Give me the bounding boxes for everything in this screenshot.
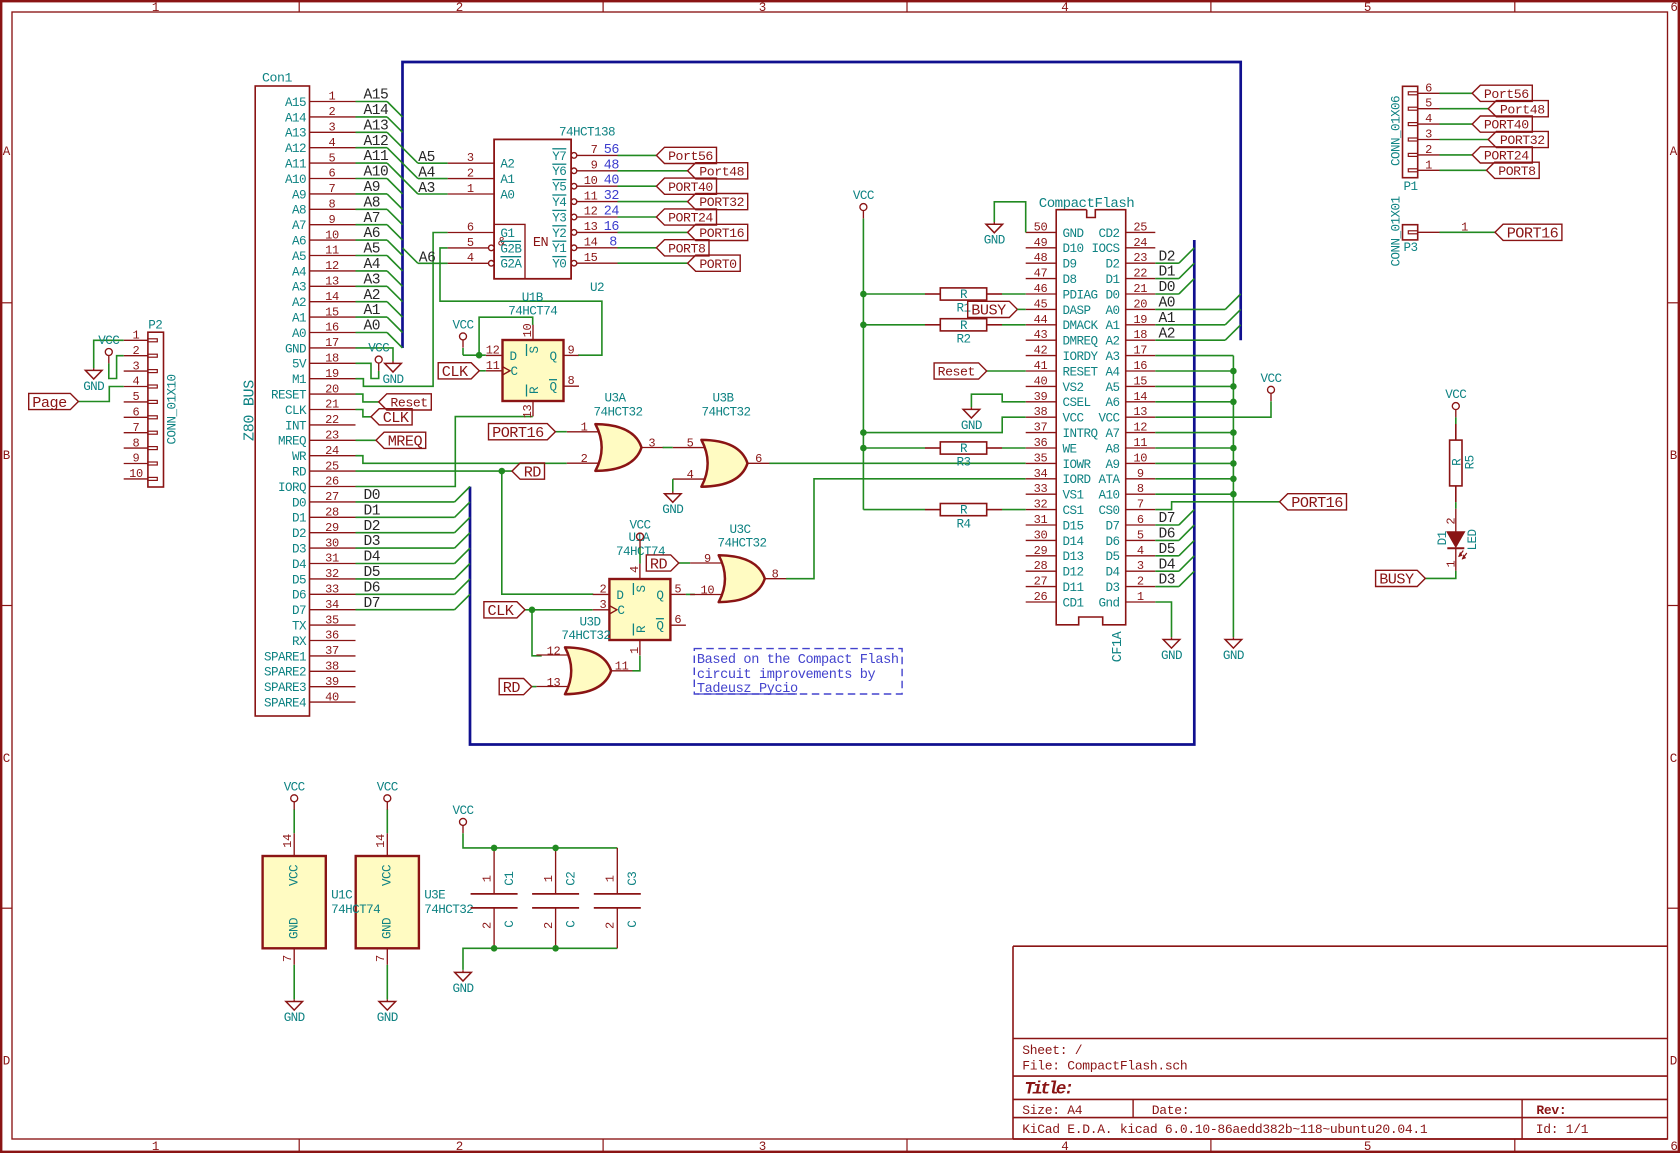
svg-text:D6: D6 [364,580,381,596]
svg-text:U3E: U3E [424,888,445,902]
svg-text:A1: A1 [1106,319,1120,333]
VCC symbol at capacitor rail [453,804,475,833]
svg-text:28: 28 [1034,559,1048,573]
svg-text:17: 17 [325,336,339,350]
svg-text:D1: D1 [1106,273,1120,287]
svg-text:1: 1 [467,182,474,196]
svg-text:8: 8 [329,198,336,212]
svg-text:MREQ: MREQ [278,435,306,449]
svg-text:PORT8: PORT8 [668,241,706,256]
svg-text:A4: A4 [1106,365,1120,379]
resistor R4 [925,504,1002,516]
svg-text:D6: D6 [1106,535,1120,549]
svg-text:12: 12 [1133,421,1147,435]
svg-text:A3: A3 [418,181,435,197]
global label PORT8 (P1) [1487,162,1540,179]
svg-text:4: 4 [687,468,694,482]
connector P2 body [148,332,164,487]
svg-text:5V: 5V [292,358,307,372]
svg-text:40: 40 [604,174,620,189]
U3C pin numbers [700,552,778,597]
svg-text:VCC: VCC [1063,412,1085,426]
svg-text:2: 2 [1425,143,1432,157]
wire CF pin 50 GND [994,202,1025,233]
svg-text:TX: TX [292,620,307,634]
svg-text:31: 31 [325,552,339,566]
global label PORT16 (P3) [1495,224,1562,242]
svg-text:4: 4 [1137,544,1144,558]
wires D7-D3 to data bus [1155,510,1194,587]
svg-text:14: 14 [1133,390,1147,404]
svg-text:RX: RX [292,635,307,649]
svg-text:2: 2 [581,452,588,466]
or-gate U3A 74HCT32 [567,424,664,471]
svg-text:GND: GND [453,982,474,996]
svg-text:11: 11 [325,244,339,258]
svg-text:D: D [510,350,517,364]
Con1 pins 1-40 stubs and numbers [264,90,356,711]
svg-text:Q: Q [550,350,557,364]
svg-text:INT: INT [285,419,307,433]
svg-text:11: 11 [584,189,598,203]
svg-text:PORT24: PORT24 [1484,149,1529,164]
svg-text:D5: D5 [364,565,381,581]
svg-text:5: 5 [1364,1140,1371,1153]
svg-text:C: C [3,752,10,766]
svg-text:1: 1 [1445,561,1459,568]
global label PORT16 (U2 output) [688,224,748,241]
svg-text:C2: C2 [565,872,579,886]
wire RD label to U3D input 13 [532,686,537,688]
local labels D0-D7 [364,488,381,612]
svg-text:17: 17 [1133,344,1147,358]
power unit U3E 74HCT32 [356,833,419,965]
svg-text:GND: GND [961,419,982,433]
svg-text:A1: A1 [292,312,306,326]
svg-text:48: 48 [604,158,620,173]
VCC rail left of CompactFlash [862,219,864,510]
flip-flop U1B 74HCT74 [486,325,579,417]
svg-text:74HCT74: 74HCT74 [331,903,380,917]
svg-text:31: 31 [1034,513,1048,527]
global label PORT24 (P1) [1472,147,1532,164]
power unit U1C 74HCT74 [263,833,326,965]
global label RD (U3C) [646,555,679,573]
svg-text:9: 9 [591,159,598,173]
svg-text:D0: D0 [1106,288,1120,302]
flip-flop pin numbers [486,324,575,419]
svg-text:D4: D4 [1159,557,1176,573]
bus entry and wire A6 to U2 G2A [403,248,448,263]
ground at CF pin 50 [984,222,1005,248]
connector CF1A body [1056,210,1126,625]
ground at CF CSEL [961,407,982,433]
svg-text:32: 32 [325,567,339,581]
wire U1A Q to U3C input 10 [686,593,695,595]
global label CLK (U1A) [484,602,525,620]
svg-text:GND: GND [288,918,302,939]
svg-text:R: R [960,319,968,333]
svg-text:PORT8: PORT8 [1498,164,1536,179]
svg-text:18: 18 [1133,328,1147,342]
U3B pin numbers [687,436,763,481]
svg-text:A7: A7 [364,211,381,227]
svg-text:B: B [1670,449,1678,463]
svg-text:25: 25 [325,459,339,473]
wire P1 pin 2 to PORT24 [1440,154,1473,156]
svg-text:D0: D0 [364,488,381,504]
svg-text:D12: D12 [1063,566,1084,580]
svg-text:IORDY: IORDY [1063,350,1099,364]
wire P2 pin1 to GND [94,340,124,368]
svg-text:6: 6 [674,613,681,627]
svg-text:1: 1 [133,329,140,343]
wire P1 pin 1 to PORT8 [1440,169,1487,171]
VCC symbol at P2 pin 2 [98,334,120,363]
svg-text:D1: D1 [1159,265,1176,281]
frame row labels right [1670,145,1678,1068]
svg-text:Y5: Y5 [552,181,566,195]
svg-text:25: 25 [1133,220,1147,234]
wire MREQ to MREQ label [356,439,377,441]
svg-text:11: 11 [615,660,629,674]
svg-text:43: 43 [1034,328,1048,342]
wire U2 Y2 to PORT16 [618,231,688,233]
svg-text:5: 5 [329,151,336,165]
svg-text:26: 26 [1034,590,1048,604]
svg-text:D: D [616,589,623,603]
svg-text:35: 35 [1034,451,1048,465]
svg-text:3: 3 [467,151,474,165]
svg-text:7: 7 [374,955,388,962]
svg-text:A2: A2 [364,288,381,304]
svg-text:U3D: U3D [580,615,601,629]
svg-text:VCC: VCC [453,804,475,818]
svg-text:D3: D3 [364,534,381,550]
svg-text:1: 1 [480,875,494,882]
svg-text:CSEL: CSEL [1063,396,1091,410]
svg-text:13: 13 [521,405,535,419]
svg-text:D15: D15 [1063,519,1084,533]
or-gate U3B 74HCT32 [673,440,770,487]
svg-text:VS1: VS1 [1063,489,1084,503]
svg-text:R: R [960,504,968,518]
or-gate U3C 74HCT32 [690,555,787,602]
wire U2 Y7 to Port56 [618,154,657,156]
svg-text:D6: D6 [292,589,306,603]
svg-text:19: 19 [1133,313,1147,327]
svg-text:A: A [3,145,11,159]
svg-text:36: 36 [325,629,339,643]
wire CF pin 39 CSEL to GND [971,394,1025,407]
svg-text:A3: A3 [364,272,381,288]
VCC symbol at U1B D [453,319,475,348]
global label CLK (U1B) [438,363,479,381]
global label PORT24 (U2 output) [656,209,716,226]
svg-text:U3C: U3C [730,523,752,537]
svg-text:16: 16 [325,321,339,335]
svg-text:R5: R5 [1464,455,1478,469]
title block frame [1013,946,1668,1139]
svg-text:7: 7 [591,143,598,157]
capacitor C2 [532,848,579,948]
svg-text:18: 18 [325,352,339,366]
ground at capacitor rail [453,970,474,996]
svg-text:WE: WE [1063,442,1077,456]
svg-text:Based on the Compact Flash: Based on the Compact Flash [697,653,899,668]
svg-text:File: CompactFlash.sch: File: CompactFlash.sch [1022,1058,1187,1073]
svg-text:GND: GND [381,918,395,939]
svg-text:28: 28 [325,506,339,520]
global label Port56 (U2 output) [656,147,716,164]
svg-text:A6: A6 [292,235,306,249]
svg-text:14: 14 [325,290,339,304]
svg-text:8: 8 [609,235,617,250]
svg-text:37: 37 [1034,421,1048,435]
svg-text:IORQ: IORQ [278,481,306,495]
svg-text:Port56: Port56 [668,149,713,164]
svg-text:PORT16: PORT16 [1291,494,1343,512]
svg-text:R: R [960,442,968,456]
svg-text:9: 9 [133,452,140,466]
junctions on grounded address column [1230,368,1237,498]
svg-text:8: 8 [772,568,779,582]
svg-text:D0: D0 [292,496,306,510]
bus entry and wire A3 to U2 A0 [403,179,448,194]
svg-text:Y7: Y7 [552,150,566,164]
global label PORT16 (U3A) [489,424,556,442]
svg-text:VCC: VCC [1099,412,1121,426]
svg-text:C: C [565,920,579,928]
CF1A left pins 50-26 [1026,220,1099,610]
svg-text:32: 32 [604,189,620,204]
svg-text:A0: A0 [500,188,514,202]
svg-text:D2: D2 [1106,258,1120,272]
svg-text:A9: A9 [292,188,306,202]
svg-text:10: 10 [521,324,535,338]
svg-text:Y2: Y2 [552,227,566,241]
wire U3E to GND [386,965,388,1000]
VCC symbol at U3E [377,780,399,809]
svg-text:Sheet: /: Sheet: / [1022,1043,1083,1058]
svg-text:2: 2 [542,922,556,929]
global label PORT32 (P1) [1488,131,1548,148]
svg-text:5: 5 [687,436,694,450]
resistor R2 [925,319,1002,331]
wire U2 Y0 to PORT0 [618,262,688,264]
svg-text:WR: WR [292,450,307,464]
svg-text:6: 6 [467,220,474,234]
svg-text:49: 49 [1034,236,1048,250]
svg-text:RESET: RESET [1063,365,1099,379]
svg-text:7: 7 [1137,498,1144,512]
svg-text:G2A: G2A [500,258,522,272]
svg-text:4: 4 [1061,1,1068,15]
svg-text:GND: GND [984,234,1005,248]
connector P3 body [1403,225,1418,240]
svg-text:5: 5 [1364,1,1371,15]
VCC symbol at U1C [284,780,306,809]
connector P1 body [1403,86,1418,177]
wire RD from Con1 pin25 [356,470,513,472]
svg-text:A5: A5 [364,242,381,258]
svg-text:LED: LED [1466,530,1480,551]
svg-text:74HCT32: 74HCT32 [424,903,473,917]
junction VCC rail at R2 [860,322,867,329]
svg-text:3: 3 [759,1140,766,1153]
svg-text:VCC: VCC [284,780,306,794]
svg-text:A15: A15 [285,96,306,110]
local labels A0 A1 A2 [1159,296,1176,343]
wire LED to BUSY label [1425,571,1456,579]
ground at P2 pin 1 [83,368,104,394]
svg-text:2: 2 [1445,518,1459,525]
svg-text:23: 23 [1133,251,1147,265]
local labels D2 D1 D0 [1159,249,1176,296]
svg-text:4: 4 [628,566,642,573]
svg-text:GND: GND [377,1011,398,1025]
svg-text:CLK: CLK [285,404,307,418]
ground at Con1 pin 17 [383,361,404,387]
svg-text:D1: D1 [292,512,306,526]
local labels A15-A0 [364,88,390,335]
svg-text:CLK: CLK [442,363,469,381]
svg-text:15: 15 [1133,374,1147,388]
wire U1C to GND [293,965,295,1000]
svg-text:S: S [635,586,649,593]
svg-text:1: 1 [329,90,336,104]
global label PORT40 (U2 output) [656,178,716,195]
svg-text:D7: D7 [364,596,381,612]
svg-text:D7: D7 [1159,511,1176,527]
wire P3 pin 1 to PORT16 [1440,231,1496,233]
svg-text:A9: A9 [1106,458,1120,472]
wire U2 Y3 to PORT24 [618,216,657,218]
wire PORT16 label to CF CS0 pin 7 [1155,502,1279,510]
svg-text:CD1: CD1 [1063,596,1084,610]
wire Con1 pin17 to GND [356,348,394,362]
svg-text:16: 16 [1133,359,1147,373]
svg-text:A2: A2 [500,158,514,172]
svg-text:24: 24 [325,444,339,458]
svg-text:3: 3 [599,598,606,612]
global label Reset (Con1) [379,394,432,411]
svg-text:10: 10 [1133,451,1147,465]
svg-text:Q: Q [656,620,663,634]
svg-text:C: C [503,920,517,928]
svg-text:10: 10 [325,228,339,242]
svg-text:34: 34 [1034,467,1048,481]
wire U3B output 6 to CompactFlash IOWR [769,462,1025,464]
svg-text:A0: A0 [292,327,306,341]
wire R5 to LED [1455,502,1457,509]
svg-text:4: 4 [467,251,474,265]
global label PORT8 (U2 output) [656,240,709,257]
address bus A0-A15 (blue) [403,62,1241,348]
wire P1 pin 5 to Port48 [1440,108,1489,110]
svg-text:D8: D8 [1063,273,1077,287]
svg-text:50: 50 [1034,220,1048,234]
svg-text:Y6: Y6 [552,165,566,179]
svg-text:CLK: CLK [488,602,515,620]
svg-text:16: 16 [604,220,620,235]
svg-text:5: 5 [674,582,681,596]
svg-text:PORT16: PORT16 [1507,225,1559,243]
svg-text:GND: GND [1161,649,1182,663]
svg-text:27: 27 [325,490,339,504]
svg-text:R: R [635,625,649,633]
flip-flop U1A 74HCT74 [593,564,686,656]
wire CF pin 13 VCC [1155,401,1271,417]
svg-text:40: 40 [1034,374,1048,388]
svg-text:15: 15 [584,251,598,265]
svg-text:13: 13 [547,676,561,690]
wire U2 Y5 to PORT40 [618,185,657,187]
wire U1B S-bar loop [479,317,533,355]
svg-text:A6: A6 [364,226,381,242]
frame column ticks [299,1,1515,1152]
svg-text:D: D [1670,1055,1677,1069]
wire Reset label to CF pin 41 [987,370,1026,372]
svg-text:A3: A3 [292,281,306,295]
capacitor C3 [594,848,641,948]
svg-text:7: 7 [281,955,295,962]
svg-text:4: 4 [329,136,336,150]
svg-text:A1: A1 [364,303,381,319]
svg-text:A0: A0 [364,319,381,335]
svg-text:6: 6 [1137,513,1144,527]
svg-text:24: 24 [604,205,620,220]
resistor R3 wires [863,447,1025,449]
wire P1 pin 4 to PORT40 [1440,123,1473,125]
svg-text:15: 15 [325,305,339,319]
svg-text:PORT40: PORT40 [668,180,713,195]
svg-text:48: 48 [1034,251,1048,265]
resistor R3 [925,442,1002,454]
svg-text:Size: A4: Size: A4 [1022,1103,1083,1118]
svg-text:A8: A8 [292,204,306,218]
svg-text:D4: D4 [364,550,381,566]
svg-text:D2: D2 [364,519,381,535]
svg-text:CS1: CS1 [1063,504,1084,518]
svg-text:9: 9 [1137,467,1144,481]
svg-text:D5: D5 [292,573,306,587]
svg-text:21: 21 [325,398,339,412]
svg-text:A14: A14 [285,111,306,125]
svg-text:2: 2 [1137,575,1144,589]
svg-text:A12: A12 [285,142,306,156]
svg-text:74HCT32: 74HCT32 [594,405,643,419]
wire P1 pin 6 to Port56 [1440,92,1473,94]
svg-text:VCC: VCC [288,864,302,886]
svg-text:36: 36 [1034,436,1048,450]
svg-text:VCC: VCC [368,342,390,356]
svg-text:13: 13 [584,220,598,234]
svg-text:9: 9 [329,213,336,227]
wire CLK to CLK label [356,410,372,417]
P3 pin 1 stub [1408,220,1468,234]
wire U2 Y1 to PORT8 [618,247,657,249]
VCC symbol left of CompactFlash [853,189,875,218]
svg-text:9: 9 [704,552,711,566]
svg-text:G2B: G2B [500,242,522,256]
svg-text:D5: D5 [1159,542,1176,558]
ground at U3E [377,999,398,1025]
svg-text:7: 7 [133,421,140,435]
svg-text:RD: RD [650,555,668,573]
svg-text:Port48: Port48 [1500,102,1545,117]
wire CLK branch down to U3D input 12 [532,610,542,656]
